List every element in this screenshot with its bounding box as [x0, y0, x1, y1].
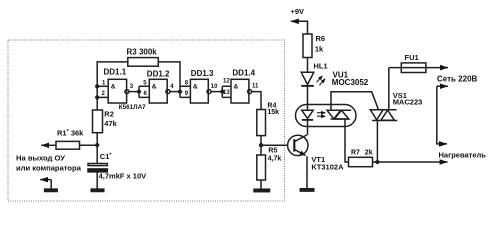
gate DD1.3 — [190, 79, 208, 103]
pin 2 — [97, 96, 108, 98]
svg-text:&: & — [111, 84, 116, 91]
svg-text:&: & — [152, 84, 157, 91]
svg-text:MAC223: MAC223 — [393, 97, 423, 106]
wire R5 to ground — [260, 180, 262, 189]
resistor R1 — [56, 141, 80, 149]
svg-text:На выход ОУ: На выход ОУ — [16, 153, 65, 162]
svg-text:&: & — [193, 84, 198, 91]
svg-text:2k: 2k — [365, 150, 373, 157]
wire R2 to C1 node — [96, 133, 98, 164]
svg-text:15k: 15k — [267, 109, 279, 116]
opto internal triac — [327, 109, 352, 111]
ground VT1 — [300, 189, 314, 191]
resistor R3 — [128, 58, 159, 67]
junction R1/R2/C1 — [96, 144, 99, 147]
junction VS1 bottom — [376, 161, 379, 164]
svg-text:47k: 47k — [104, 119, 117, 128]
resistor R6 — [303, 34, 312, 58]
svg-text:R1* 36k: R1* 36k — [57, 129, 84, 138]
wire R3 right to DD1.3 input tie — [158, 62, 180, 98]
optocoupler VU1 body — [296, 105, 357, 127]
wire VS1 MT1 down — [376, 121, 378, 163]
wire R3 left to input node — [97, 62, 128, 110]
fuse FU1 — [389, 67, 448, 69]
input tie DD1.2 — [139, 86, 149, 97]
svg-text:Сеть 220В: Сеть 220В — [437, 75, 478, 84]
svg-text:FU1: FU1 — [405, 53, 419, 62]
wire VS1 MT2 up to fuse — [388, 68, 390, 110]
svg-text:или компаратора: или компаратора — [16, 164, 82, 173]
junction DD1.2 in — [138, 90, 141, 93]
wire opto LED cathode to VT1 collector — [307, 120, 309, 135]
dashed enclosure — [8, 40, 285, 201]
transistor VT1 — [288, 135, 308, 155]
gate DD1.2 — [149, 79, 167, 103]
triac VS1 — [370, 109, 397, 111]
wire R1 right — [80, 144, 98, 146]
wire opto triac to VS1 gate — [331, 92, 378, 111]
svg-text:&: & — [234, 84, 239, 91]
wire R7 to heater line — [373, 161, 448, 163]
svg-text:4: 4 — [170, 84, 174, 90]
output common arrow — [40, 179, 51, 181]
junction DD1.3 in — [179, 90, 182, 93]
svg-text:К561ЛА7: К561ЛА7 — [119, 104, 146, 111]
resistor R2 — [93, 110, 103, 133]
svg-text:R7: R7 — [351, 149, 360, 156]
junction DD1.4 in — [221, 90, 224, 93]
svg-text:DD1.2: DD1.2 — [147, 69, 170, 78]
pin 3 output wire — [129, 91, 139, 93]
svg-text:10: 10 — [211, 84, 218, 90]
input tie DD1.4 — [222, 86, 231, 97]
pin 4 output wire — [170, 91, 180, 93]
svg-text:R3 300k: R3 300k — [127, 48, 158, 57]
junction base node — [260, 144, 263, 147]
wire R6 to HL1 — [307, 58, 309, 73]
pins 8 9 — [180, 86, 190, 97]
opto coupling arrow — [317, 112, 325, 114]
svg-text:9: 9 — [185, 91, 189, 97]
wire R4 to R5 — [260, 136, 262, 155]
mains bracket terminal — [437, 85, 448, 87]
ground R5 — [254, 189, 270, 192]
resistor R7 — [349, 157, 373, 166]
wire HL1 to opto — [307, 86, 309, 111]
ground bar — [45, 189, 58, 191]
svg-text:Нагреватель: Нагреватель — [439, 150, 487, 159]
svg-text:DD1.3: DD1.3 — [191, 69, 214, 78]
+9V supply arrow — [297, 21, 308, 34]
svg-text:4,7k: 4,7k — [268, 155, 282, 162]
svg-text:C1*: C1* — [100, 152, 113, 161]
svg-text:11: 11 — [252, 84, 259, 90]
svg-text:KT3102A: KT3102A — [311, 162, 344, 171]
svg-text:+9V: +9V — [291, 7, 305, 16]
svg-text:R5: R5 — [268, 148, 277, 155]
svg-text:HL1: HL1 — [314, 61, 328, 70]
svg-text:R2: R2 — [104, 109, 114, 118]
wire VT1 emitter to ground — [306, 156, 308, 189]
svg-text:6: 6 — [144, 91, 148, 97]
pin 10 output wire — [211, 91, 222, 93]
gate DD1.4 — [231, 79, 249, 103]
junction node pins 1-2 — [96, 85, 99, 88]
svg-text:12: 12 — [223, 78, 230, 84]
output arrow of R1 — [41, 144, 56, 146]
wire opto triac to R7 — [345, 119, 349, 162]
svg-text:3: 3 — [130, 84, 134, 90]
pin 11 output wire — [252, 92, 261, 110]
svg-text:MOC3052: MOC3052 — [332, 78, 369, 87]
svg-text:R6: R6 — [316, 34, 326, 43]
gate DD1.1 — [108, 79, 126, 103]
svg-text:DD1.4: DD1.4 — [232, 69, 255, 78]
capacitor C1 — [88, 164, 107, 166]
opto internal LED — [302, 110, 313, 118]
wire base to VT1 — [261, 144, 288, 146]
wire C1 to ground — [96, 172, 98, 189]
svg-text:DD1.1: DD1.1 — [104, 68, 127, 77]
pin 1 — [97, 85, 108, 87]
svg-text:1k: 1k — [315, 44, 324, 53]
svg-text:4,7mkF x 10V: 4,7mkF x 10V — [99, 172, 147, 181]
resistor R5 — [257, 155, 266, 180]
ground C1 — [91, 189, 104, 191]
resistor R4 — [257, 110, 266, 136]
svg-text:2: 2 — [102, 91, 106, 97]
